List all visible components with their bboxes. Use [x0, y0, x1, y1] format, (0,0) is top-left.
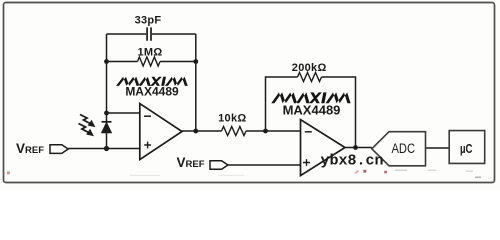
microcontroller block [449, 131, 485, 164]
photodiode D1 [102, 122, 112, 133]
node: U1 feedback right junction [193, 59, 198, 64]
node: VREF / photodiode anode junction [104, 146, 109, 151]
wire VREF to non-inverting input U1 [68, 148, 140, 150]
wire VREF to non-inverting input U2 [228, 164, 301, 166]
wire U2 output to ADC [345, 147, 372, 149]
ADC block [372, 132, 426, 166]
wire feedback loop 1 top (capacitor branch) [107, 33, 196, 35]
svg-text:ADC: ADC [392, 141, 416, 156]
node: U2 output junction [353, 145, 358, 150]
wire feedback loop 1 middle (resistor branch) [107, 61, 196, 63]
node: U1 output junction [193, 129, 198, 134]
svg-text:MAX4489: MAX4489 [125, 85, 179, 99]
resistor R2 10k ohm [222, 127, 247, 136]
MAXIM logo U2 [271, 92, 350, 103]
resistor R3 200k ohm [298, 73, 322, 82]
svg-text:ybx8.cn: ybx8.cn [321, 153, 384, 170]
terminal VREF 1 [16, 141, 68, 156]
wire right vertical of loop 1 [195, 34, 197, 131]
wire U1 output [182, 130, 222, 132]
light arrows into photodiode [79, 115, 95, 136]
watermark ybx8.cn [7, 153, 481, 179]
svg-text:10kΩ: 10kΩ [218, 112, 246, 124]
op-amp U1 MAX4489 [140, 104, 182, 160]
svg-text:µC: µC [460, 142, 473, 156]
resistor R1 1M ohm [138, 57, 161, 66]
terminal VREF 2 [177, 155, 228, 170]
svg-text:200kΩ: 200kΩ [292, 62, 327, 74]
wire inverting input U1 [107, 112, 141, 114]
wire left vertical of loop 1 / photodiode branch [106, 34, 108, 149]
MAXIM logo U1 [116, 77, 188, 86]
svg-text:33pF: 33pF [135, 15, 162, 27]
wire ADC to microcontroller [426, 147, 450, 149]
wire feedback loop 2 [266, 77, 356, 148]
wire R2 to inverting input U2 [246, 130, 301, 132]
node: U2 inverting input junction [263, 129, 268, 134]
node: U1 inverting input junction [104, 111, 109, 116]
op-amp U2 MAX4489 [301, 120, 346, 176]
capacitor C1 33pF [147, 27, 151, 40]
svg-text:MAX4489: MAX4489 [283, 103, 341, 118]
svg-text:1MΩ: 1MΩ [137, 47, 162, 59]
node: U1 feedback left junction [104, 59, 109, 64]
